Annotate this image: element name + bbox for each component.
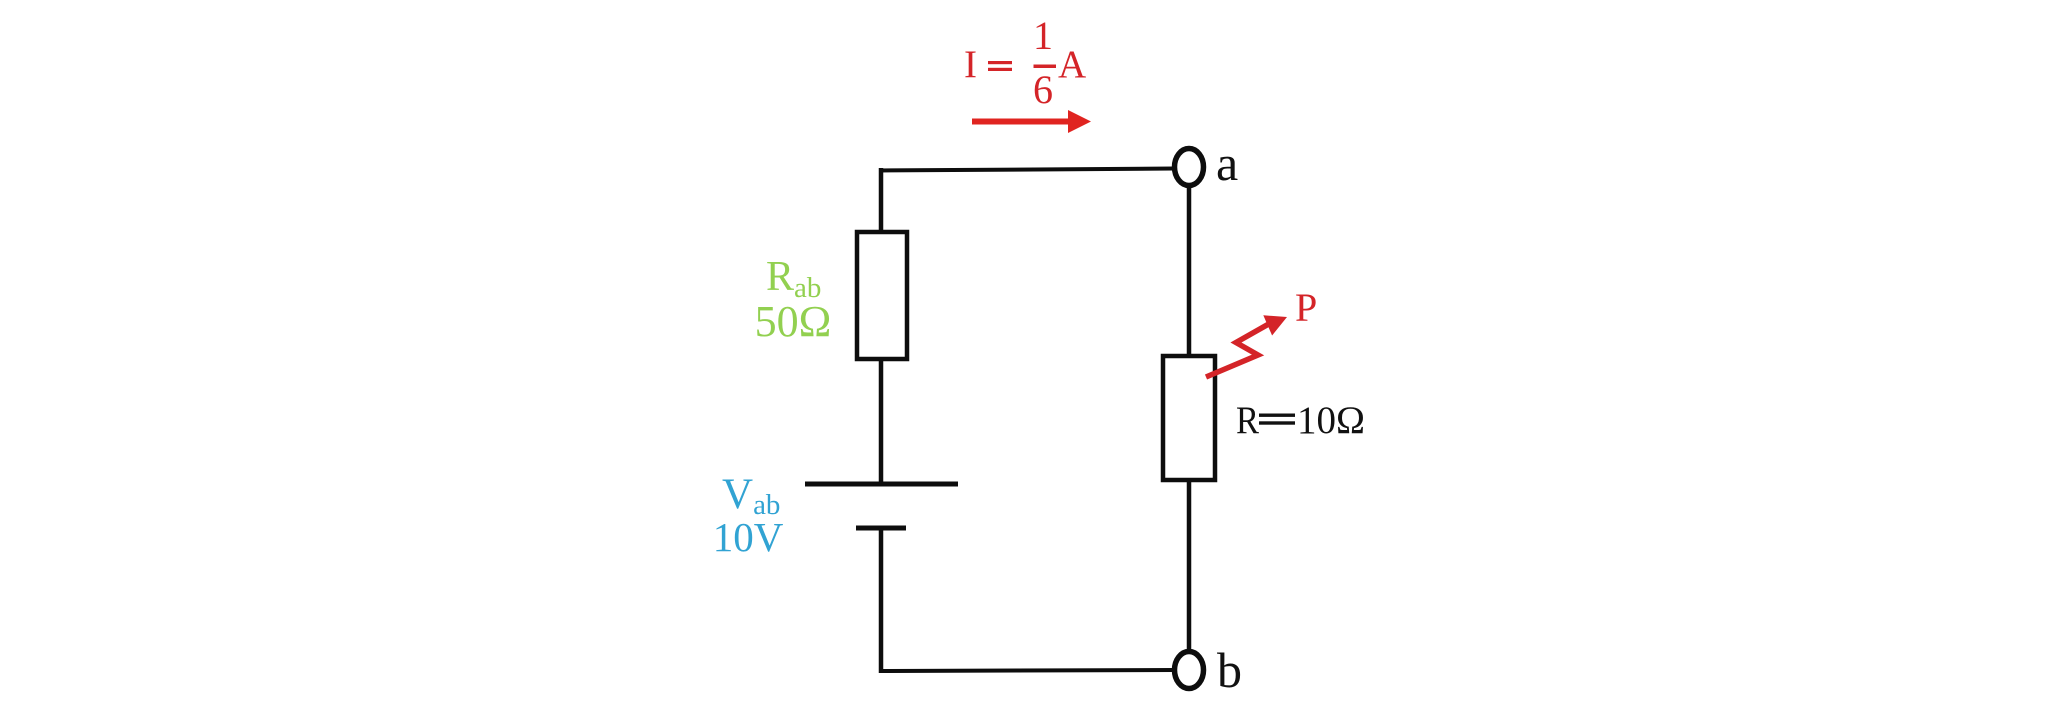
- svg-text:b: b: [1217, 642, 1242, 698]
- wire top horizontal from left branch to node a: [879, 169, 1174, 171]
- wire right vertical from resistor R bottom to node b: [1187, 480, 1192, 652]
- svg-text:10Ω: 10Ω: [1297, 399, 1365, 442]
- current label fraction bar (red): [1034, 65, 1057, 69]
- svg-text:R: R: [1236, 399, 1259, 442]
- svg-text:50Ω: 50Ω: [755, 297, 832, 346]
- node b terminal circle: [1175, 652, 1204, 689]
- resistor Rab body: [857, 232, 907, 359]
- variable resistor arrow P (red zigzag): [1206, 321, 1274, 377]
- wire right vertical from node a to resistor R top: [1187, 186, 1192, 358]
- svg-text:10V: 10V: [713, 514, 784, 560]
- wire left vertical from battery bottom plate to bottom wire: [879, 528, 884, 673]
- resistor R body (load): [1163, 356, 1215, 480]
- battery Vab positive (long) plate: [805, 482, 958, 487]
- svg-text:P: P: [1295, 285, 1317, 330]
- wire left vertical from resistor Rab bottom to battery top plate: [879, 359, 884, 484]
- current direction arrow (red): [972, 110, 1091, 133]
- arrowhead of P arrow: [1263, 315, 1287, 335]
- battery Vab negative (short) plate: [856, 526, 906, 531]
- svg-text:I: I: [964, 43, 977, 86]
- current label equals sign (red): [988, 61, 1012, 71]
- svg-text:a: a: [1216, 135, 1238, 191]
- svg-text:6: 6: [1033, 67, 1053, 112]
- label R=10ohm: equals sign: [1259, 414, 1295, 425]
- wire left vertical from top wire to resistor Rab top: [879, 168, 884, 234]
- svg-text:A: A: [1058, 43, 1086, 86]
- wire bottom horizontal from left branch to node b: [879, 670, 1174, 671]
- node a terminal circle: [1175, 149, 1204, 186]
- svg-text:1: 1: [1033, 13, 1053, 58]
